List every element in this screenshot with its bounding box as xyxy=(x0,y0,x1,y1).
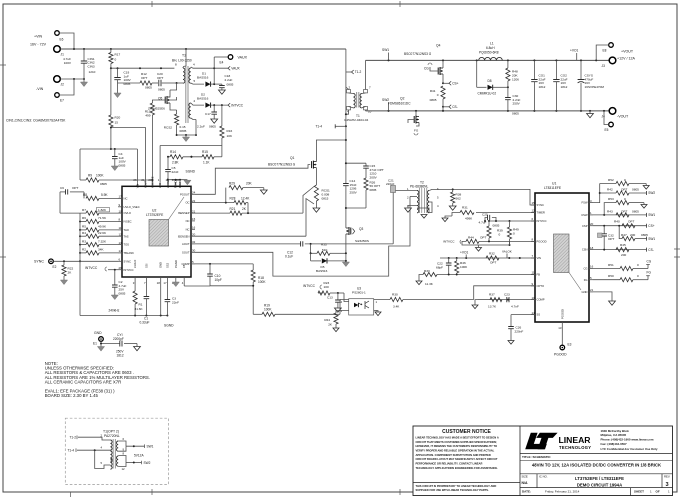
svg-text:+12V / 12A: +12V / 12A xyxy=(617,57,635,61)
wire bus drop to T1 xyxy=(345,49,347,87)
wire E8 to bus xyxy=(596,45,609,60)
svg-text:22nF: 22nF xyxy=(172,170,179,174)
svg-text:10: 10 xyxy=(368,110,372,114)
svg-text:0: 0 xyxy=(637,263,639,267)
svg-text:INTVCC: INTVCC xyxy=(124,268,134,272)
svg-text:R33: R33 xyxy=(424,269,430,273)
U2 pin 16 NC xyxy=(191,228,195,230)
svg-text:E1: E1 xyxy=(93,342,97,346)
svg-text:E4: E4 xyxy=(220,61,224,65)
svg-text:100K: 100K xyxy=(258,280,266,284)
svg-text:R15: R15 xyxy=(202,150,208,154)
svg-text:BSC077N12NS3 G: BSC077N12NS3 G xyxy=(404,52,432,56)
svg-text:NC: NC xyxy=(124,197,128,201)
wire COMP row xyxy=(490,299,535,301)
resistor R50 0 gate FG xyxy=(593,279,620,281)
svg-text:LINEAR TECHNOLOGY HAS MADE A B: LINEAR TECHNOLOGY HAS MADE A BEST EFFORT… xyxy=(416,435,499,439)
U2 pin 21 HOUT xyxy=(144,182,146,186)
svg-text:R37: R37 xyxy=(489,293,495,297)
svg-text:FSW: FSW xyxy=(582,201,588,205)
ground R37 xyxy=(475,300,478,305)
net flag SW2 xyxy=(646,191,648,195)
capacitor C13 xyxy=(337,293,339,300)
svg-text:R53: R53 xyxy=(608,197,614,201)
svg-text:CS-: CS- xyxy=(648,248,654,252)
net flag SW1 on CSW xyxy=(646,213,648,217)
wire CSN row xyxy=(593,249,647,251)
svg-text:R14: R14 xyxy=(170,150,176,154)
U2 pin 10 OVLO xyxy=(118,212,122,214)
wire opto collector to R30 xyxy=(374,299,390,301)
svg-text:250V: 250V xyxy=(350,190,358,194)
svg-text:SGND: SGND xyxy=(164,324,174,328)
wire ISENSEN row xyxy=(195,235,306,237)
wire ISENSEP riser xyxy=(303,187,314,214)
ground C18 xyxy=(219,90,226,94)
U2 pin 17 SS2 xyxy=(166,277,168,281)
capacitor CIN1 CIN2 CIN3 xyxy=(83,49,85,61)
svg-text:THIS CIRCUIT IS PROPRIETARY TO: THIS CIRCUIT IS PROPRIETARY TO LINEAR TE… xyxy=(416,484,497,488)
diode D5 BAS516 xyxy=(310,253,312,261)
svg-text:22.6K: 22.6K xyxy=(98,231,107,235)
ground R44 xyxy=(476,248,482,252)
wire T2 pin4 gnd xyxy=(417,208,429,213)
terminal J4 -VOUT xyxy=(609,108,616,115)
svg-text:BAS516: BAS516 xyxy=(316,269,328,273)
U2 pin 5 COMP xyxy=(191,263,195,265)
svg-text:1812: 1812 xyxy=(539,85,546,89)
capacitor C17 xyxy=(213,105,215,112)
svg-text:1812: 1812 xyxy=(117,353,124,357)
svg-text:2.2uF: 2.2uF xyxy=(225,78,233,82)
U1 pin 10 COMP xyxy=(531,299,535,301)
U2 pin 7 SSI xyxy=(145,277,147,281)
resistor R23 100 xyxy=(318,292,323,294)
resistor R8 5.9K xyxy=(86,196,99,200)
svg-text:AOUT: AOUT xyxy=(182,242,190,246)
resistor R16 xyxy=(221,105,223,126)
svg-text:G45AH2-0404-04: G45AH2-0404-04 xyxy=(344,118,369,122)
resistor R42 OPT xyxy=(600,192,616,194)
svg-text:26: 26 xyxy=(119,266,123,270)
svg-text:TAS: TAS xyxy=(124,234,129,238)
svg-text:R41: R41 xyxy=(430,89,436,93)
svg-text:INTVCC: INTVCC xyxy=(443,240,455,244)
U1 pin 14 SS xyxy=(531,314,535,316)
capacitor C23 4.7nF xyxy=(507,299,509,301)
wire AOUT to C21 xyxy=(195,243,301,245)
svg-text:U1: U1 xyxy=(552,182,556,186)
svg-text:OPT: OPT xyxy=(628,220,634,224)
svg-text:PGND: PGND xyxy=(174,260,178,268)
svg-text:24: 24 xyxy=(192,191,196,195)
svg-text:OF: OF xyxy=(656,490,660,494)
svg-text:TOS: TOS xyxy=(124,243,130,247)
svg-text:R44: R44 xyxy=(468,236,474,240)
svg-text:0805: 0805 xyxy=(124,82,131,86)
svg-text:0: 0 xyxy=(624,178,626,182)
U1 pin 5 FG xyxy=(589,279,593,281)
capacitor C3 22nF xyxy=(166,281,168,300)
svg-text:CG: CG xyxy=(424,67,429,71)
wire optbox pin6 SW1 xyxy=(118,441,126,446)
svg-text:FG: FG xyxy=(584,278,588,282)
svg-text:CIN3: CIN3 xyxy=(88,64,95,68)
terminal E2 SYNC xyxy=(49,259,54,264)
svg-text:17: 17 xyxy=(119,195,123,199)
svg-text:SYNC: SYNC xyxy=(124,259,132,263)
svg-text:0805: 0805 xyxy=(512,112,519,116)
svg-text:0805: 0805 xyxy=(430,98,437,102)
resistor R47 200 xyxy=(619,226,622,239)
svg-text:CS+: CS+ xyxy=(648,224,654,228)
wire HFB node line xyxy=(160,145,222,147)
svg-text:12: 12 xyxy=(532,209,536,213)
resistor R43 OPT on CSW xyxy=(616,213,629,217)
wire PGOOD row xyxy=(479,240,535,242)
svg-text:R45: R45 xyxy=(620,243,626,247)
resistor R20 xyxy=(110,68,112,115)
wire COMP row xyxy=(195,263,253,265)
ground input caps xyxy=(83,79,85,82)
svg-text:TBLANK: TBLANK xyxy=(124,251,135,255)
svg-text:E7: E7 xyxy=(60,99,64,103)
svg-text:Q3: Q3 xyxy=(359,227,363,231)
capacitor C32 OPT xyxy=(603,226,605,234)
resistor R40 OPT xyxy=(622,224,635,228)
wire GND pin18 down xyxy=(160,281,162,316)
svg-text:100V: 100V xyxy=(64,61,72,65)
svg-text:240kHz: 240kHz xyxy=(109,308,120,312)
wire Q1 drain xyxy=(316,140,346,162)
svg-text:SW2: SW2 xyxy=(648,191,655,195)
resistor R3 7.32K xyxy=(80,244,86,246)
U1 pin 21 GND xyxy=(589,291,593,293)
svg-text:T1-4: T1-4 xyxy=(67,448,74,452)
svg-text:E3: E3 xyxy=(568,343,572,347)
wire FB row xyxy=(437,274,535,276)
U2 pin 6 SYNC xyxy=(118,260,122,262)
ground R38 xyxy=(449,206,456,210)
svg-text:T1-2: T1-2 xyxy=(69,435,76,439)
ground C19 xyxy=(114,93,121,98)
U2 pin 8 IVSEC xyxy=(118,221,122,223)
svg-text:R29: R29 xyxy=(229,181,235,185)
svg-text:CUSTOMER NOTICE: CUSTOMER NOTICE xyxy=(442,429,491,435)
wire E6 to bus xyxy=(59,33,74,49)
svg-text:0805: 0805 xyxy=(209,125,216,129)
resistor R18 100K xyxy=(252,264,254,270)
ground R53 xyxy=(641,205,647,209)
svg-text:J3: J3 xyxy=(602,64,606,68)
svg-text:OPT: OPT xyxy=(480,236,486,240)
wire RCS2 bottom junction xyxy=(177,134,196,136)
wire OC row xyxy=(195,202,234,204)
svg-text:CSW: CSW xyxy=(581,213,588,217)
svg-text:R40: R40 xyxy=(614,220,620,224)
svg-text:NC: NC xyxy=(186,227,190,231)
svg-text:E6: E6 xyxy=(60,38,64,42)
svg-text:4.7uF: 4.7uF xyxy=(479,220,487,224)
wire T2 pin5 xyxy=(429,202,432,213)
svg-text:68pF: 68pF xyxy=(436,265,443,269)
svg-text:COMP: COMP xyxy=(537,298,545,302)
svg-text:R9: R9 xyxy=(88,174,92,178)
svg-text:OPT: OPT xyxy=(157,76,163,80)
svg-text:GND: GND xyxy=(94,331,102,335)
svg-text:20K: 20K xyxy=(246,181,253,185)
svg-text:2.8K: 2.8K xyxy=(172,161,179,165)
diode D1 BAS516 xyxy=(191,83,204,84)
wire optbox pin4 xyxy=(77,449,110,451)
terminal E3 PGOOD xyxy=(560,345,565,350)
svg-text:LINEAR: LINEAR xyxy=(559,435,592,445)
svg-text:15: 15 xyxy=(115,121,119,125)
resistor R41 0 xyxy=(441,86,445,99)
capacitor C30 2.2nF xyxy=(507,87,509,97)
U2 pin 17 NC xyxy=(118,197,122,199)
svg-text:TITLE: SCHEMATIC: TITLE: SCHEMATIC xyxy=(522,455,551,459)
U2 pin 11 TAO xyxy=(118,229,122,231)
U1 pin 1 CSW xyxy=(589,214,593,216)
capacitor C14 15nF series in rail xyxy=(345,163,347,183)
svg-text:TIMER: TIMER xyxy=(537,211,545,215)
svg-text:PERFORMANCE OR RELIABILITY. C: PERFORMANCE OR RELIABILITY. CONTACT LINE… xyxy=(416,462,483,466)
svg-text:R50: R50 xyxy=(608,274,614,278)
U1 pin 3 FSW xyxy=(589,202,593,204)
U2 pin 30 FGND xyxy=(179,182,181,186)
svg-text:2200pF: 2200pF xyxy=(113,337,124,341)
ground RCS2 xyxy=(185,135,187,137)
svg-text:FB: FB xyxy=(182,264,186,268)
svg-text:+VO1: +VO1 xyxy=(570,49,578,53)
svg-text:Friday, February 21, 2014: Friday, February 21, 2014 xyxy=(545,490,580,494)
svg-text:0805: 0805 xyxy=(119,163,126,167)
capacitor C19 xyxy=(117,68,119,77)
wire opto cathode R24 xyxy=(336,311,349,314)
svg-text:100K: 100K xyxy=(96,174,104,178)
op-amp U2 LT3752EFE main controller IC xyxy=(122,186,191,277)
wire PGOOD to E3 xyxy=(561,326,563,345)
svg-text:PQI2050-6R8: PQI2050-6R8 xyxy=(479,50,499,54)
svg-text:220nF: 220nF xyxy=(515,329,524,333)
capacitor C6 OPT xyxy=(60,191,66,193)
wire main input bus xyxy=(60,48,346,50)
svg-text:OPT: OPT xyxy=(72,186,78,190)
wire C19 row xyxy=(111,67,174,69)
U2 pin 26 INTVCC xyxy=(118,269,122,271)
svg-text:FDMS86101DC: FDMS86101DC xyxy=(388,102,411,106)
svg-text:4.7nF: 4.7nF xyxy=(511,305,519,309)
svg-text:PE-68386NL: PE-68386NL xyxy=(410,184,428,188)
resistor R12 OPT xyxy=(118,82,141,84)
resistor R39 0 xyxy=(488,221,490,226)
wire CSP row xyxy=(593,225,647,227)
wire R19 to opto rail xyxy=(340,300,349,315)
svg-text:562: 562 xyxy=(456,196,461,200)
net flag SW1 lower xyxy=(646,237,648,241)
svg-text:VAUX: VAUX xyxy=(238,56,248,60)
dashed box T1 OPT 2 alternate transformer xyxy=(65,418,168,484)
svg-text:12.4K: 12.4K xyxy=(241,197,250,201)
net flag VAUX xyxy=(228,66,230,70)
svg-text:0805: 0805 xyxy=(158,88,165,92)
net flag T1-2 xyxy=(352,70,354,74)
resistor R48 20K xyxy=(507,60,509,68)
terminal J1 +VIN xyxy=(54,46,61,53)
resistor R26 56 OPT xyxy=(364,178,368,190)
svg-text:UVLO_VSEC: UVLO_VSEC xyxy=(124,205,140,209)
transformer T1 OPT 2 PA2720NL xyxy=(113,439,115,469)
ground C17 xyxy=(211,119,218,123)
svg-text:IVSEC: IVSEC xyxy=(124,220,132,224)
svg-text:NC: NC xyxy=(186,219,190,223)
svg-text:R30: R30 xyxy=(392,293,398,297)
svg-text:R32: R32 xyxy=(489,252,495,256)
sense resistor RCS1 0.008 xyxy=(314,185,318,201)
svg-text:0.1uF: 0.1uF xyxy=(285,254,293,258)
svg-text:OPT: OPT xyxy=(621,209,627,213)
resistor R52 0 xyxy=(600,183,616,185)
svg-text:SW1: SW1 xyxy=(382,48,389,52)
svg-text:20: 20 xyxy=(192,232,196,236)
wire VIN drop xyxy=(136,149,138,182)
svg-text:22nF: 22nF xyxy=(172,301,179,305)
capacitor C18 xyxy=(221,84,223,85)
svg-text:OC: OC xyxy=(185,201,189,205)
resistor R38 562 xyxy=(452,189,454,192)
svg-text:499K: 499K xyxy=(465,217,473,221)
resistor R9 100K xyxy=(80,179,86,181)
svg-text:250V: 250V xyxy=(513,102,521,106)
svg-text:LTC Confidential-For Customer: LTC Confidential-For Customer Use Only xyxy=(601,447,658,451)
svg-text:OPT: OPT xyxy=(621,188,627,192)
ground U1 GND xyxy=(609,301,616,305)
svg-text:C13: C13 xyxy=(327,296,333,300)
ground R33 xyxy=(416,281,422,285)
wire optbox pin9 xyxy=(118,446,126,451)
svg-text:C25: C25 xyxy=(482,212,488,216)
capacitor CSYS 470uF electrolytic xyxy=(580,60,582,79)
svg-text:1630 McCarthy Blvd.: 1630 McCarthy Blvd. xyxy=(601,429,630,433)
svg-text:5.9K: 5.9K xyxy=(101,193,108,197)
resistor R33 11.3K xyxy=(423,272,437,276)
svg-text:13: 13 xyxy=(119,241,123,245)
capacitor C2 4.7uF xyxy=(114,270,116,285)
capacitor C10 10pF xyxy=(209,264,211,274)
svg-text:3: 3 xyxy=(665,482,668,488)
svg-text:CIN1,CIN2,CIN3: CGA6M3X7S2A475: CIN1,CIN2,CIN3: CGA6M3X7S2A475K xyxy=(6,119,66,123)
svg-text:SSI: SSI xyxy=(144,263,148,268)
svg-text:200V: 200V xyxy=(370,175,378,179)
svg-text:16V - 72V: 16V - 72V xyxy=(30,42,47,46)
wire C21 to T2 pin1 xyxy=(396,190,418,192)
svg-text:18: 18 xyxy=(157,281,161,285)
svg-text:ISENSEP: ISENSEP xyxy=(178,211,190,215)
svg-text:SYNC: SYNC xyxy=(34,260,44,264)
capacitor C1 0.33uF xyxy=(145,281,147,297)
svg-text:CIRCUIT THAT MEETS CUSTOMER-SU: CIRCUIT THAT MEETS CUSTOMER-SUPPLIED SPE… xyxy=(416,440,498,444)
svg-text:0805: 0805 xyxy=(145,86,152,90)
ground T2 pin3 xyxy=(408,206,417,209)
svg-text:R43: R43 xyxy=(607,209,613,213)
wire T1 pin7 to SW bus xyxy=(365,60,367,89)
svg-text:CG: CG xyxy=(647,260,652,264)
svg-text:34K: 34K xyxy=(98,248,104,252)
svg-text:PS2801-1: PS2801-1 xyxy=(352,290,366,294)
wire opto anode from R23 xyxy=(344,293,349,302)
svg-text:-VIN: -VIN xyxy=(36,87,44,91)
resistor R49 0 xyxy=(509,221,511,227)
svg-text:R6: R6 xyxy=(82,216,86,220)
svg-text:FG: FG xyxy=(414,129,419,133)
svg-text:R7: R7 xyxy=(82,208,86,212)
svg-text:R42: R42 xyxy=(607,188,613,192)
resistor R46 100K xyxy=(456,258,458,261)
svg-text:15: 15 xyxy=(192,217,196,221)
resistor R29 20K xyxy=(225,188,227,203)
U2 pin 25 VIN xyxy=(136,182,138,186)
svg-text:R47: R47 xyxy=(621,233,627,237)
svg-text:RCS2: RCS2 xyxy=(164,126,173,130)
net flag SW2 optbox xyxy=(126,462,142,464)
wire optbox pin5 loop xyxy=(95,450,111,468)
svg-text:0.33uF: 0.33uF xyxy=(140,321,150,325)
svg-text:0805: 0805 xyxy=(227,82,234,86)
svg-text:R3: R3 xyxy=(82,239,86,243)
U2 pin 3 CHILO xyxy=(134,277,136,281)
wire SOUT long xyxy=(195,197,410,277)
svg-text:D8: D8 xyxy=(488,79,492,83)
capacitor C20 OPT xyxy=(152,82,158,84)
svg-text:Q1: Q1 xyxy=(290,156,295,160)
svg-text:13: 13 xyxy=(558,326,562,330)
mosfet Q5 ZVN4525E6 xyxy=(165,96,167,104)
svg-text:100K: 100K xyxy=(264,308,272,312)
svg-text:1210: 1210 xyxy=(89,70,96,74)
capacitor CO2 22uF xyxy=(555,60,557,79)
svg-text:T3: T3 xyxy=(182,54,186,58)
svg-text:J2: J2 xyxy=(61,83,65,87)
svg-text:SW1: SW1 xyxy=(648,237,655,241)
svg-text:PGOOD: PGOOD xyxy=(560,309,564,319)
wire optbox pin2 xyxy=(78,437,110,440)
capacitor C22 68pF xyxy=(448,258,450,263)
U2 pin 20 ISENSEN xyxy=(191,235,195,237)
wire J2 to ground node xyxy=(60,78,84,80)
wire T3 sec top to VAUX xyxy=(191,67,228,68)
U1 pin 8 PGOOD xyxy=(531,240,535,242)
wire U2 bottom rail xyxy=(80,315,168,317)
svg-text:SS: SS xyxy=(537,313,541,317)
svg-text:48VIN TO 12V, 12A ISOLATED DC/: 48VIN TO 12V, 12A ISOLATED DC/DC CONVERT… xyxy=(532,463,662,468)
size ic rev row xyxy=(520,474,673,488)
resistor R37 13.7K xyxy=(478,299,490,301)
svg-text:VIN: VIN xyxy=(135,184,139,189)
svg-text:FB: FB xyxy=(537,273,541,277)
svg-text:BSC077N12NS3 G: BSC077N12NS3 G xyxy=(268,163,296,167)
net flag CS+ right xyxy=(646,224,648,228)
svg-text:0805: 0805 xyxy=(370,188,377,192)
resistor R5 49.9K xyxy=(80,229,86,231)
U2 pin 12 TAS xyxy=(118,235,122,237)
net flag CS- lower xyxy=(442,106,444,108)
svg-text:INTVCC: INTVCC xyxy=(85,266,98,270)
svg-text:SUPPLIED FOR USE WITH LINEAR T: SUPPLIED FOR USE WITH LINEAR TECHNOLOGY … xyxy=(416,488,490,492)
terminal E7 -VIN xyxy=(55,93,60,98)
wire lower rail xyxy=(366,110,613,112)
title rows xyxy=(520,453,673,455)
